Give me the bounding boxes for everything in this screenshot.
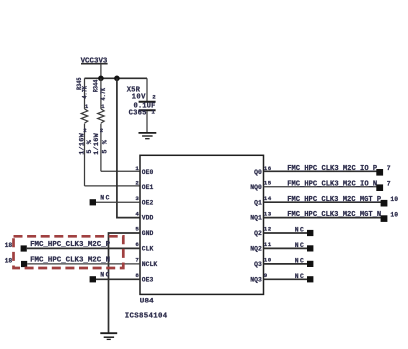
svg-text:14: 14 — [264, 195, 272, 202]
pin 7 NCLK — [135, 257, 157, 268]
svg-text:CLK: CLK — [142, 246, 154, 253]
svg-text:Q1: Q1 — [254, 199, 262, 206]
net FMC_HPC_CLK3_M2C_IO_N pin 15 — [264, 180, 391, 191]
svg-text:OE1: OE1 — [142, 184, 154, 191]
svg-text:10: 10 — [390, 212, 398, 219]
no-connect flag pin 10 — [264, 257, 314, 267]
no-connect flag pin 11 — [264, 242, 314, 252]
svg-text:18: 18 — [5, 242, 13, 249]
junction at R344 top — [98, 76, 104, 82]
svg-text:C365: C365 — [129, 109, 147, 117]
no-connect flag pin 3 — [90, 194, 140, 205]
pin 3 OE2 — [135, 195, 153, 206]
pin 6 CLK — [135, 241, 153, 252]
svg-text:FMC_HPC_CLK3_M2C_N: FMC_HPC_CLK3_M2C_N — [30, 257, 110, 265]
svg-text:1: 1 — [135, 165, 139, 172]
svg-text:4.7K: 4.7K — [100, 87, 108, 100]
pin 5 GND — [135, 226, 153, 237]
no-connect flag pin 9 — [264, 273, 314, 283]
node FMC_HPC_CLK3_M2C_P (page 18) to pin 6 CLK — [5, 241, 140, 252]
net FMC_HPC_CLK3_M2C_MGT_N pin 13 — [264, 211, 399, 222]
svg-text:GND: GND — [142, 230, 154, 237]
svg-text:OE3: OE3 — [142, 276, 154, 283]
pin 1 OE0 — [135, 165, 153, 176]
svg-text:U84: U84 — [140, 297, 154, 305]
svg-text:VDD: VDD — [142, 215, 154, 222]
svg-text:6: 6 — [135, 241, 139, 248]
pin 2 OE1 — [135, 179, 153, 190]
wire R345 to pin 2 — [85, 185, 141, 187]
node FMC_HPC_CLK3_M2C_N (page 18) to pin 7 NCLK — [5, 257, 140, 268]
no-connect flag pin 8 — [90, 272, 140, 283]
svg-text:OE2: OE2 — [142, 199, 154, 206]
resistor R344 — [92, 78, 109, 171]
pin 15 NQ0 — [250, 179, 271, 190]
svg-text:10: 10 — [264, 257, 272, 264]
svg-text:18: 18 — [5, 258, 13, 265]
svg-text:NQ1: NQ1 — [250, 215, 262, 222]
red selection box around CLK/NCLK nets — [14, 236, 124, 268]
op IC U84 box — [140, 155, 264, 294]
svg-text:8: 8 — [135, 272, 139, 279]
svg-text:3: 3 — [135, 195, 139, 202]
svg-text:Q2: Q2 — [254, 230, 262, 237]
pin 12 Q2 — [254, 226, 272, 237]
wire GND pin 5 to ground — [109, 233, 141, 333]
svg-text:FMC_HPC_CLK3_M2C_MGT_N: FMC_HPC_CLK3_M2C_MGT_N — [287, 211, 381, 219]
svg-text:NC: NC — [295, 242, 304, 249]
svg-text:1: 1 — [151, 109, 155, 116]
svg-text:FMC_HPC_CLK3_M2C_IO_P: FMC_HPC_CLK3_M2C_IO_P — [287, 165, 378, 173]
ground below U84 — [100, 333, 117, 339]
svg-text:OE0: OE0 — [142, 169, 154, 176]
svg-text:NQ3: NQ3 — [250, 276, 262, 283]
svg-text:13: 13 — [264, 210, 272, 217]
pin 8 OE3 — [135, 272, 153, 283]
wire VCC rail to VDD pin 4 — [117, 78, 140, 217]
svg-text:2: 2 — [135, 179, 139, 186]
capacitor C365 — [127, 78, 157, 132]
svg-text:Q0: Q0 — [254, 169, 262, 176]
power symbol VCC3V3 — [81, 57, 108, 78]
svg-text:ICS854104: ICS854104 — [125, 312, 168, 320]
junction at VDD tap — [114, 76, 120, 82]
svg-text:Q3: Q3 — [254, 261, 262, 268]
svg-text:7: 7 — [387, 181, 391, 188]
svg-text:NQ0: NQ0 — [250, 184, 262, 191]
svg-text:FMC_HPC_CLK3_M2C_P: FMC_HPC_CLK3_M2C_P — [30, 241, 111, 249]
svg-text:NCLK: NCLK — [142, 261, 157, 268]
svg-text:10V: 10V — [132, 94, 146, 102]
pin 14 Q1 — [254, 195, 272, 206]
pin 16 Q0 — [254, 165, 272, 176]
wire VCC3V3 rail — [85, 77, 148, 79]
svg-text:NC: NC — [295, 227, 304, 234]
svg-text:15: 15 — [264, 179, 272, 186]
net FMC_HPC_CLK3_M2C_MGT_P pin 14 — [264, 196, 399, 207]
svg-text:NC: NC — [100, 272, 109, 279]
svg-text:7: 7 — [387, 165, 391, 172]
wire R344 to pin 1 — [101, 170, 140, 172]
svg-text:12: 12 — [264, 226, 272, 233]
pin 13 NQ1 — [250, 210, 271, 221]
svg-text:7: 7 — [135, 257, 139, 264]
pin 4 VDD — [135, 210, 153, 221]
resistor R345 — [76, 77, 94, 185]
svg-text:9: 9 — [264, 272, 268, 279]
pin 10 Q3 — [254, 257, 272, 268]
svg-text:FMC_HPC_CLK3_M2C_IO_N: FMC_HPC_CLK3_M2C_IO_N — [287, 180, 377, 188]
svg-text:NQ2: NQ2 — [250, 246, 262, 253]
no-connect flag pin 12 — [264, 227, 314, 237]
svg-text:10: 10 — [390, 196, 398, 203]
svg-text:11: 11 — [264, 241, 272, 248]
net FMC_HPC_CLK3_M2C_IO_P pin 16 — [264, 165, 391, 176]
svg-text:FMC_HPC_CLK3_M2C_MGT_P: FMC_HPC_CLK3_M2C_MGT_P — [287, 196, 382, 204]
pin 11 NQ2 — [250, 241, 271, 252]
pin 9 NQ3 — [250, 272, 268, 283]
svg-text:4: 4 — [135, 210, 139, 217]
svg-text:NC: NC — [295, 273, 304, 280]
svg-text:5: 5 — [135, 226, 139, 233]
svg-text:NC: NC — [100, 194, 109, 201]
ground below C365 — [139, 133, 157, 139]
svg-text:1/16W: 1/16W — [93, 132, 101, 154]
svg-text:2: 2 — [152, 94, 156, 101]
svg-text:4.7K: 4.7K — [81, 85, 89, 98]
svg-text:NC: NC — [295, 257, 304, 264]
